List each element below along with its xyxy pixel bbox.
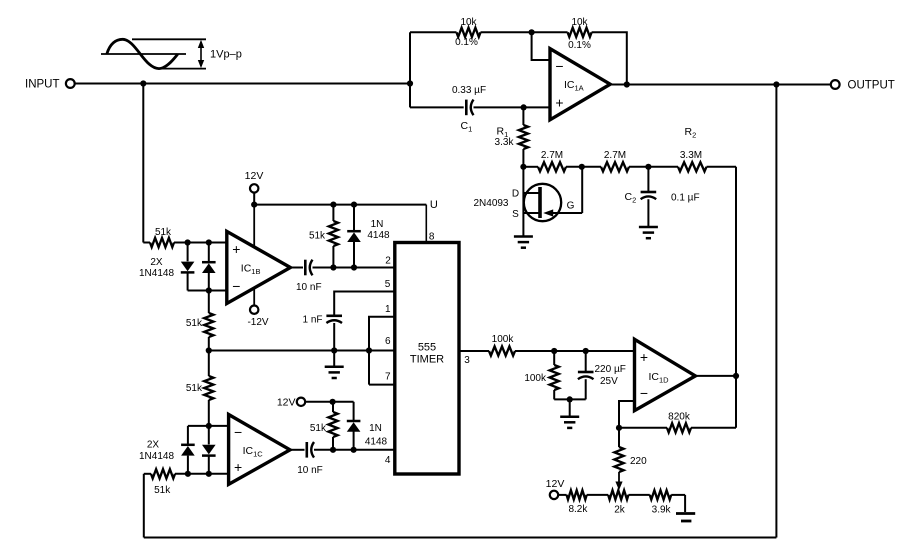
svg-text:0.1%: 0.1% (568, 40, 591, 51)
svg-text:820k: 820k (668, 411, 691, 422)
wire to IC1A inverting input (532, 32, 551, 60)
resistor 100k series (489, 334, 515, 356)
wire 10nF to pin 4 (314, 449, 395, 451)
wire top rail left (410, 31, 457, 33)
svg-text:4148: 4148 (367, 230, 390, 241)
svg-text:100k: 100k (524, 373, 547, 384)
svg-text:G: G (567, 200, 575, 211)
wire IC1C minus (188, 425, 229, 427)
resistor 10k 0.1% (right) (568, 17, 592, 51)
resistor R1 3.3k (495, 107, 528, 166)
resistor 51k IC1C plus (144, 469, 229, 496)
node pin4 at 51k (330, 447, 336, 453)
output terminal (831, 80, 895, 92)
op-amp IC1C (229, 415, 290, 485)
label 2X 1N4148 lower (139, 439, 174, 462)
node shunt ground (567, 396, 573, 402)
svg-text:2.7M: 2.7M (604, 150, 626, 161)
node feedback junction (616, 425, 622, 431)
node IC1D output (733, 373, 739, 379)
node IC1C plus left (185, 471, 191, 477)
IC 555 timer box (395, 243, 459, 475)
resistor 51k IC1B plus (143, 227, 227, 247)
svg-text:−: − (555, 58, 563, 74)
svg-text:TIMER: TIMER (410, 353, 444, 365)
supply 12V IC1B (245, 170, 264, 205)
svg-text:4: 4 (385, 455, 391, 466)
wire IC1D minus feed (619, 401, 635, 428)
svg-text:10k: 10k (571, 17, 588, 28)
resistor 51k mid lower (186, 351, 214, 426)
wire input to IC1B (142, 84, 144, 243)
diode 1N4148 left of IC1B (181, 243, 195, 291)
svg-text:51k: 51k (154, 485, 171, 496)
wire 100k to IC1D plus (515, 350, 635, 352)
node output feedback junction (773, 81, 779, 87)
wire C1 to IC1A plus (474, 106, 551, 108)
wire pin 5 (334, 279, 395, 315)
wire pin 6 line (209, 336, 395, 350)
op-amp IC1D (635, 339, 696, 410)
svg-text:−: − (232, 278, 240, 294)
ground JFET source (514, 237, 533, 248)
svg-text:2N4093: 2N4093 (473, 198, 508, 209)
node IC1C plus right (206, 471, 212, 477)
svg-text:+: + (234, 459, 242, 475)
node pin2 at 51k (330, 264, 336, 270)
wire IC1A output (610, 84, 831, 86)
node pin 6 bracket (366, 347, 372, 353)
supply -12V IC1B (247, 306, 268, 329)
node input junction B (407, 80, 413, 86)
wire between 10k resistors (481, 31, 568, 33)
svg-text:OUTPUT: OUTPUT (848, 80, 895, 92)
resistor 51k pin4 pullup (310, 402, 338, 450)
svg-text:3: 3 (464, 355, 470, 366)
svg-text:1: 1 (385, 304, 391, 315)
svg-text:1Vp–p: 1Vp–p (210, 49, 242, 61)
wire IC1B minus (188, 290, 227, 292)
svg-text:-12V: -12V (247, 317, 268, 328)
svg-text:2: 2 (385, 255, 391, 266)
svg-text:0.33 µF: 0.33 µF (452, 85, 486, 96)
node 220uF junction (583, 348, 589, 354)
wire 12V rail (254, 205, 426, 243)
dimension arrow 1Vp-p (198, 40, 242, 68)
wire pin 3 (459, 351, 489, 366)
wire input to top rail and C1 (409, 32, 411, 107)
svg-text:−: − (640, 385, 648, 401)
svg-text:S: S (512, 209, 519, 220)
resistor 2.7M (left) (538, 150, 566, 171)
resistor 51k mid upper (186, 291, 214, 351)
node IC1C minus (206, 423, 212, 429)
diode 1N4148 right of IC1B (202, 243, 216, 291)
wire input line (75, 83, 410, 85)
svg-text:U: U (430, 199, 438, 211)
ground 3.9k (676, 495, 695, 521)
diode 1N4148 pin4 clamp (347, 402, 388, 450)
wire IC1B supply from bottom edge (253, 289, 255, 306)
svg-text:0.1%: 0.1% (455, 37, 478, 48)
ground C2 (639, 227, 658, 238)
svg-text:0.1 µF: 0.1 µF (671, 193, 700, 204)
svg-text:−: − (234, 424, 242, 440)
wire 12V rail IC1C (305, 401, 353, 403)
svg-text:10 nF: 10 nF (296, 282, 322, 293)
node pin 6 at 51k chain (206, 347, 212, 353)
node between 10k resistors (529, 29, 535, 35)
svg-text:2X: 2X (150, 257, 163, 268)
svg-text:3.3M: 3.3M (680, 150, 702, 161)
resistor R2 3.3M (678, 126, 707, 171)
wire output feedback right side (775, 85, 777, 538)
node IC1B minus (206, 287, 212, 293)
node IC1B plus left (185, 239, 191, 245)
svg-text:6: 6 (385, 336, 391, 347)
svg-text:D: D (512, 189, 519, 200)
node rail IC1C (330, 399, 336, 405)
capacitor 10nF IC1B (296, 260, 322, 293)
op-amp IC1B (227, 231, 291, 303)
wire IC1B supply to top edge (253, 205, 255, 247)
node gate junction (579, 164, 585, 170)
svg-text:1 nF: 1 nF (302, 314, 322, 325)
resistor 820k (619, 411, 736, 432)
diode 1N4148 left of IC1C (181, 426, 195, 474)
wire feedback to bottom rail (143, 474, 145, 538)
node pin2 at diode (351, 264, 357, 270)
capacitor C1 0.33uF (452, 85, 486, 134)
svg-text:220: 220 (630, 456, 647, 467)
svg-text:10 nF: 10 nF (297, 465, 323, 476)
node C2 junction (645, 164, 651, 170)
svg-text:12V: 12V (277, 397, 296, 409)
wire C1 left (410, 106, 464, 108)
op-amp IC1A (550, 49, 610, 120)
label pin 2 (385, 255, 391, 266)
svg-text:100k: 100k (492, 334, 515, 345)
node input junction A (140, 80, 146, 86)
svg-text:1N4148: 1N4148 (139, 451, 174, 462)
wire pin 1 (369, 304, 395, 384)
wire 10nF to pin 2 (313, 267, 395, 269)
wire IC1B output (290, 267, 303, 269)
svg-text:5: 5 (385, 279, 391, 290)
sine wave source symbol (101, 39, 206, 68)
resistor 51k pin2 pullup (309, 205, 338, 268)
svg-text:220 µF: 220 µF (595, 364, 626, 375)
ground shunt (560, 399, 579, 428)
node C1/R1 junction (521, 104, 527, 110)
node 1nF ground junction (331, 347, 337, 353)
svg-text:555: 555 (418, 341, 436, 353)
capacitor 1nF (302, 314, 342, 325)
node 100k shunt (551, 348, 557, 354)
potentiometer 2k (608, 490, 628, 515)
diode 1N4148 right of IC1C (202, 426, 216, 474)
label pin 4 (385, 455, 391, 466)
label net U (430, 199, 438, 211)
svg-text:10k: 10k (460, 17, 477, 28)
wire 1nF to pin6 line (333, 323, 335, 351)
wire R2 to IC1D output (735, 167, 737, 428)
svg-text:4148: 4148 (365, 437, 388, 448)
resistor 2.7M (right) (601, 150, 629, 171)
node IC1A output (624, 81, 630, 87)
svg-text:25V: 25V (600, 376, 618, 387)
wire IC1C output (290, 449, 305, 451)
svg-text:51k: 51k (155, 227, 172, 238)
svg-text:3.3k: 3.3k (495, 137, 515, 148)
node rail at supply (251, 202, 257, 208)
wire pin 7 (369, 372, 395, 385)
resistor 100k shunt (524, 351, 558, 399)
node rail at 51k (330, 202, 336, 208)
supply 12V pot (546, 478, 565, 499)
resistor 10k 0.1% (left) (455, 17, 480, 48)
svg-text:3.9k: 3.9k (652, 505, 672, 516)
wiper arrow (615, 472, 622, 490)
svg-text:51k: 51k (186, 318, 203, 329)
wire IC1D output (695, 375, 736, 377)
label 2X 1N4148 upper (139, 257, 174, 279)
capacitor 10nF IC1C (297, 442, 323, 476)
svg-text:+: + (555, 94, 563, 110)
svg-text:+: + (640, 349, 648, 365)
node IC1B plus right (206, 239, 212, 245)
svg-text:2.7M: 2.7M (541, 150, 563, 161)
node rail at diode (351, 202, 357, 208)
svg-text:1N4148: 1N4148 (139, 268, 174, 279)
node pin4 at diode (351, 447, 357, 453)
capacitor 220uF 25V (578, 351, 626, 399)
transistor 2N4093 JFET (473, 167, 582, 236)
svg-text:12V: 12V (546, 478, 565, 490)
svg-text:2k: 2k (614, 505, 626, 516)
svg-text:+: + (232, 241, 240, 257)
svg-text:7: 7 (385, 372, 391, 383)
capacitor C2 0.1uF (625, 167, 700, 226)
resistor 220 (614, 428, 647, 472)
svg-text:2X: 2X (147, 439, 160, 450)
svg-text:51k: 51k (310, 423, 327, 434)
resistor 8.2k (558, 490, 608, 515)
svg-text:51k: 51k (309, 231, 326, 242)
ground pin 5 cap (325, 351, 344, 379)
wire 2.7M row (523, 166, 736, 168)
svg-text:INPUT: INPUT (25, 79, 60, 91)
svg-text:12V: 12V (245, 170, 264, 182)
wire bottom feedback rail (144, 537, 777, 539)
supply 12V IC1C (277, 397, 305, 409)
input terminal (25, 79, 75, 91)
wire shunt bottom tie (554, 398, 586, 400)
node R1 bottom (520, 164, 526, 170)
svg-text:8.2k: 8.2k (568, 504, 588, 515)
svg-text:1N: 1N (369, 423, 382, 434)
svg-text:8: 8 (429, 231, 435, 242)
resistor 3.9k (628, 490, 685, 515)
svg-text:1N: 1N (371, 219, 384, 230)
diode 1N4148 pin2 clamp (347, 205, 390, 268)
wire 10k to output corner (592, 32, 627, 84)
label pin 8 (429, 231, 435, 242)
svg-text:51k: 51k (186, 383, 203, 394)
